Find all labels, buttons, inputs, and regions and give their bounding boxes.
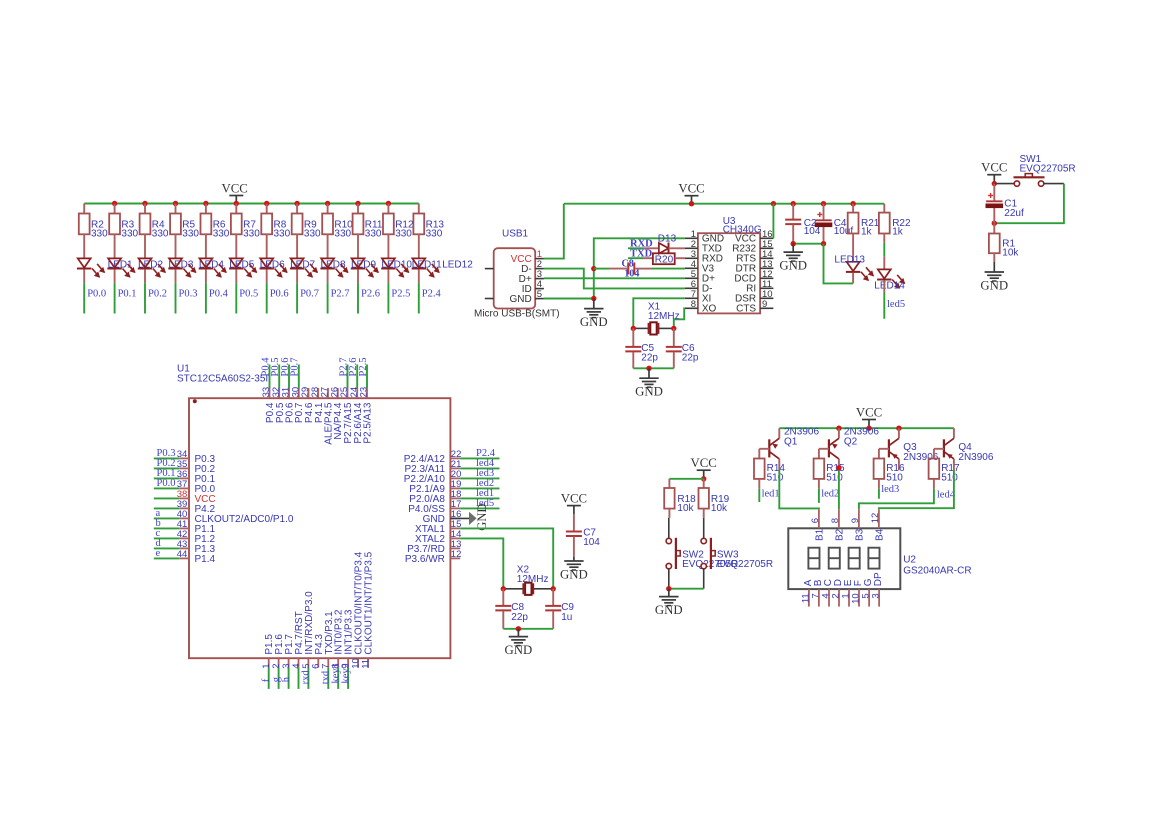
- resistor R22 1k: [883, 204, 885, 213]
- U1 pin 35 P0.2: [154, 467, 179, 469]
- svg-text:P0.7: P0.7: [300, 288, 319, 299]
- USB1 shield stubs: [485, 268, 494, 270]
- svg-text:330: 330: [152, 229, 169, 240]
- U1 pin 22 P2.4/A12: [450, 457, 460, 459]
- U3 pin 10 DSR: [760, 297, 773, 299]
- U1 pin 8 INT0/P3.2: [337, 658, 339, 667]
- svg-text:VCC: VCC: [222, 181, 248, 195]
- wire / net led2: [818, 489, 820, 503]
- junction (X1 right): [671, 326, 676, 331]
- svg-text:44: 44: [177, 549, 188, 560]
- svg-text:GND: GND: [505, 643, 533, 657]
- svg-text:led1: led1: [762, 488, 780, 499]
- LED LED3: [139, 258, 152, 267]
- svg-text:104: 104: [624, 269, 639, 280]
- USB1 pin 2 D-: [535, 268, 544, 270]
- svg-text:3: 3: [871, 593, 882, 598]
- wire USB VCC to bus: [544, 204, 564, 259]
- svg-text:U2: U2: [903, 555, 916, 566]
- svg-text:P0.2: P0.2: [148, 288, 167, 299]
- resistor R2: [83, 204, 85, 214]
- U1 pin 37 P0.0: [154, 487, 179, 489]
- junction (VCC keys): [701, 476, 706, 481]
- junction (display bus / Q3): [896, 426, 901, 431]
- U1 pin 4 P4.7/RST: [298, 658, 300, 667]
- wire / net P0.1: [114, 283, 116, 313]
- svg-text:EVQ22705R: EVQ22705R: [1020, 164, 1076, 175]
- U2 pin 9 B3: [858, 509, 860, 528]
- svg-text:P2.5: P2.5: [391, 288, 410, 299]
- wire / net led5 (LED14): [883, 293, 885, 319]
- junction (top bus / R21): [850, 201, 855, 206]
- wire / net P0.4: [205, 283, 207, 313]
- svg-text:GND: GND: [779, 259, 807, 273]
- svg-text:LED12: LED12: [442, 259, 473, 270]
- svg-text:P0.5: P0.5: [239, 288, 258, 299]
- U2 pin 2 D: [838, 589, 840, 607]
- svg-text:led3: led3: [881, 484, 899, 495]
- LED LED13: [852, 234, 854, 262]
- U1 pin 23 P2.5/A13: [366, 388, 368, 398]
- svg-text:P2.5/A13: P2.5/A13: [363, 402, 374, 444]
- wire / net P0.6: [266, 283, 268, 313]
- U1 pin 3 P1.7: [288, 658, 290, 667]
- U1 pin 30 P0.7: [298, 388, 300, 398]
- svg-text:D13: D13: [658, 234, 677, 245]
- U1 pin 7 TXD/P3.1: [327, 658, 329, 667]
- svg-text:2N3906: 2N3906: [958, 452, 993, 463]
- resistor R6: [205, 204, 207, 214]
- svg-text:GS2040AR-CR: GS2040AR-CR: [903, 566, 971, 577]
- junction (X2 right): [551, 586, 556, 591]
- U2 pin 5 G: [868, 589, 870, 607]
- junction (C4 gnd): [821, 241, 826, 246]
- U1 pin 39 P4.2: [154, 507, 179, 509]
- svg-text:Q1: Q1: [784, 436, 798, 447]
- wire / net led1: [758, 489, 760, 502]
- U3 pin 7 XI: [685, 297, 698, 299]
- U3 pin 5 D+: [685, 277, 698, 279]
- wire / net P2.5: [387, 283, 389, 313]
- svg-text:22uf: 22uf: [1004, 208, 1024, 219]
- svg-text:330: 330: [365, 229, 382, 240]
- junction (VCC/C1/SW1): [992, 181, 997, 186]
- resistor R10: [327, 204, 329, 214]
- diode D13: [644, 247, 659, 249]
- wire / net P2.7: [327, 283, 329, 313]
- wire Q1 collector to U2 B1: [779, 470, 819, 509]
- svg-text:Micro USB-B(SMT): Micro USB-B(SMT): [474, 309, 560, 320]
- U1 pin 12 P3.6/WR: [450, 557, 460, 559]
- svg-text:P0.6: P0.6: [270, 288, 289, 299]
- LED LED2: [108, 258, 121, 267]
- resistor R5: [175, 204, 177, 214]
- svg-text:VCC: VCC: [691, 456, 717, 470]
- U1 pin 17 P4.0/SS: [450, 507, 460, 509]
- ground (below C7): [573, 557, 575, 561]
- wire VCC to R18: [669, 478, 703, 480]
- ground (below SW2): [668, 589, 670, 597]
- svg-text:8: 8: [830, 518, 841, 523]
- resistor R11: [357, 204, 359, 214]
- resistor R17 510: [929, 459, 940, 479]
- U3 pin 1 GND: [685, 237, 698, 239]
- transistor Q4 2N3906: [953, 428, 955, 438]
- U1 pin 21 P2.3/A11: [450, 467, 460, 469]
- svg-text:h: h: [281, 676, 292, 682]
- svg-text:rxd: rxd: [301, 670, 312, 685]
- svg-text:22p: 22p: [511, 612, 528, 623]
- connector USB1 Micro USB-B(SMT): [494, 248, 536, 308]
- LED LED6: [230, 258, 243, 267]
- U2 pin 6 B1: [818, 509, 820, 528]
- capacitor C9 1u: [552, 589, 554, 606]
- svg-text:e: e: [156, 548, 161, 559]
- switch SW2 EVQ22705R: [668, 518, 670, 539]
- switch SW3 EVQ22705R: [703, 518, 705, 539]
- LED LED14: [883, 256, 885, 269]
- wire C4 to LED13 cathode: [824, 244, 854, 284]
- junction (X2 gnd): [516, 626, 521, 631]
- junction (X2 left): [501, 586, 506, 591]
- svg-text:B4: B4: [874, 528, 885, 541]
- svg-text:22p: 22p: [682, 353, 699, 364]
- ground (below R1): [993, 253, 995, 262]
- resistor R8: [266, 204, 268, 214]
- U1 pin 44 P1.4: [154, 557, 179, 559]
- capacitor C7 104: [573, 514, 575, 531]
- svg-text:EVQ22705R: EVQ22705R: [717, 559, 773, 570]
- wire USB D+ to CH340 D+: [544, 277, 685, 279]
- svg-text:1k: 1k: [861, 227, 873, 238]
- wire SW1 to C1 bottom: [994, 184, 1064, 224]
- wire / net P0.0: [83, 283, 85, 313]
- USB1 pin 1 VCC: [535, 258, 544, 260]
- svg-text:330: 330: [304, 229, 321, 240]
- svg-text:R20: R20: [655, 254, 674, 265]
- wire U3 XO to crystal: [674, 308, 685, 328]
- svg-text:Q2: Q2: [844, 436, 858, 447]
- capacitor C8 22p: [502, 589, 504, 606]
- junction (C1 bottom): [992, 221, 997, 226]
- svg-text:B2: B2: [834, 528, 845, 541]
- junction (VCC bus col 11): [386, 201, 391, 206]
- junction (top bus / U3 VCC): [771, 201, 776, 206]
- svg-text:9: 9: [850, 518, 861, 523]
- wire Q4 collector to U2 B4: [879, 470, 954, 509]
- svg-text:6: 6: [810, 518, 821, 523]
- svg-text:LED13: LED13: [834, 255, 865, 266]
- LED LED8: [291, 258, 304, 267]
- svg-text:GND: GND: [580, 315, 608, 329]
- junction (VCC bus col 5): [203, 201, 208, 206]
- resistor R1 10k: [993, 223, 995, 233]
- wire TXD: [628, 257, 644, 259]
- wire USB GND: [544, 298, 594, 300]
- svg-text:22p: 22p: [641, 353, 658, 364]
- svg-text:330: 330: [121, 229, 138, 240]
- wire bus to U3 pin16: [772, 204, 774, 239]
- ground flag (U1 pin16): [450, 517, 469, 519]
- ground (below USB): [593, 299, 595, 309]
- LED LED11: [382, 258, 395, 267]
- svg-text:10k: 10k: [711, 503, 728, 514]
- svg-text:GND: GND: [560, 567, 588, 581]
- ground (below C2): [792, 244, 794, 252]
- junction (GND net / USB GND): [591, 296, 596, 301]
- junction (display bus / Q2): [836, 426, 841, 431]
- junction (Q2 collector): [836, 465, 841, 470]
- svg-text:330: 330: [395, 229, 412, 240]
- svg-text:VCC: VCC: [856, 405, 882, 419]
- junction (top bus / C4): [821, 201, 826, 206]
- U1 pin 6 P4.3: [317, 658, 319, 667]
- USB1 pin 4 ID: [535, 288, 544, 290]
- svg-text:LED14: LED14: [874, 281, 905, 292]
- svg-text:1k: 1k: [892, 227, 904, 238]
- U2 pin 3 DP: [878, 589, 880, 607]
- svg-text:VCC: VCC: [981, 161, 1007, 175]
- svg-text:P0.7: P0.7: [290, 358, 301, 377]
- wire U1 XTAL1 to X2: [460, 528, 553, 588]
- wire Q2 collector to U2 B2: [838, 470, 840, 509]
- capacitor C5 22p: [632, 328, 634, 346]
- U2 pin 7 B: [818, 589, 820, 607]
- U3 pin 2 TXD: [685, 247, 698, 249]
- capacitor C6 22p: [673, 328, 675, 346]
- wire R22 to LED14: [883, 243, 885, 257]
- U3 pin 14 RTS: [760, 257, 773, 259]
- U1 pin 14 XTAL2: [450, 537, 460, 539]
- svg-text:GND: GND: [475, 504, 489, 531]
- U3 pin 11 RI: [760, 287, 773, 289]
- svg-text:510: 510: [941, 472, 958, 483]
- U2 pin 1 E: [848, 589, 850, 607]
- U1 pin 1 P1.5: [268, 658, 270, 667]
- resistor R3: [114, 204, 116, 214]
- U1 pin 38 VCC: [154, 497, 179, 499]
- svg-text:11: 11: [360, 659, 371, 669]
- junction (VCC bus col 4): [173, 201, 178, 206]
- U1 pin 13 P3.7/RD: [450, 547, 460, 549]
- U1 pin 25 P2.7/A15: [347, 388, 349, 398]
- U2 pin 8 B2: [838, 509, 840, 528]
- svg-text:P2.7: P2.7: [331, 288, 350, 299]
- wire C5-C6 bottom: [633, 367, 674, 369]
- U1 pin 11 CLKOUT1/INT/T1/P3.5: [367, 658, 369, 667]
- U3 pin 16 VCC: [760, 237, 773, 239]
- svg-text:9: 9: [762, 299, 767, 310]
- wire U1 XTAL2 to X2: [460, 538, 503, 588]
- U1 pin 9 INT1/P3.3: [347, 658, 349, 667]
- resistor R14 510: [754, 459, 765, 479]
- wire / net P2.6: [357, 283, 359, 313]
- capacitor C1 22uf: [993, 184, 995, 201]
- svg-text:CTS: CTS: [736, 304, 756, 315]
- junction (display bus / VCC stem): [866, 426, 871, 431]
- U3 pin 8 XO: [685, 307, 698, 309]
- capacitor C4 10uf: [823, 204, 825, 220]
- U1 pin 31 P0.6: [288, 388, 290, 398]
- junction (VCC bus col 9): [325, 201, 330, 206]
- U1 pin 43 P1.3: [154, 547, 179, 549]
- svg-text:P2.5: P2.5: [358, 358, 369, 377]
- wire C2-C4 bottom: [793, 243, 823, 245]
- U3 pin 9 CTS: [760, 307, 773, 309]
- svg-text:B1: B1: [814, 528, 825, 541]
- resistor R19 10k: [703, 479, 705, 488]
- svg-text:P1.4: P1.4: [195, 554, 216, 565]
- junction (VCC bus col 8): [294, 201, 299, 206]
- resistor R20: [644, 257, 653, 259]
- svg-text:330: 330: [334, 229, 351, 240]
- U1 pin 26 NA/P4.4: [337, 388, 339, 398]
- junction (crystal gnd): [646, 366, 651, 371]
- svg-text:12: 12: [870, 513, 881, 524]
- svg-text:VCC: VCC: [678, 182, 704, 196]
- U2 pin 11 A: [808, 589, 810, 607]
- U3 pin 6 D-: [685, 287, 698, 289]
- resistor R18 10k: [668, 479, 670, 488]
- wire VCC bus (top): [564, 203, 885, 205]
- U1 pin 32 P0.5: [278, 388, 280, 398]
- U1 pin 10 CLKOUT0/INT/T0/P3.4: [357, 658, 359, 667]
- svg-text:XO: XO: [702, 304, 717, 315]
- junction (VCC bus col 2): [112, 201, 117, 206]
- svg-text:330: 330: [91, 229, 108, 240]
- svg-text:DP: DP: [873, 572, 884, 586]
- svg-text:GND: GND: [509, 294, 531, 305]
- svg-text:12MHz: 12MHz: [648, 311, 680, 322]
- display U2 GS2040AR-CR: [788, 528, 900, 589]
- svg-text:B3: B3: [854, 528, 865, 541]
- resistor R12: [387, 204, 389, 214]
- svg-text:330: 330: [426, 229, 443, 240]
- svg-text:P2.6: P2.6: [361, 288, 380, 299]
- svg-text:P0.3: P0.3: [179, 288, 198, 299]
- transistor Q3 2N3906: [898, 428, 900, 438]
- ground (below C5/C6): [648, 368, 650, 378]
- svg-text:GND: GND: [655, 603, 683, 617]
- LED LED12: [412, 258, 425, 267]
- U2 pin 12 B4: [878, 509, 880, 528]
- svg-text:led2: led2: [821, 488, 839, 499]
- transistor Q2 2N3906: [838, 428, 840, 438]
- U1 pin 29 P4.6: [308, 388, 310, 398]
- U1 pin 15 XTAL1: [450, 527, 460, 529]
- svg-text:510: 510: [826, 472, 843, 483]
- junction (top bus / VCC stem): [689, 201, 694, 206]
- resistor R4: [144, 204, 146, 214]
- resistor R7: [235, 204, 237, 214]
- U1 pin 5 INT/RXD/P3.0: [307, 658, 309, 667]
- U1 pin 33 P0.4: [269, 388, 271, 398]
- svg-text:led4: led4: [937, 490, 956, 501]
- capacitor C8 104: [594, 268, 609, 270]
- svg-text:330: 330: [243, 229, 260, 240]
- wire R17 to U2 B3: [859, 489, 934, 510]
- svg-text:104: 104: [804, 226, 821, 237]
- junction (VCC bus col 6): [234, 201, 239, 206]
- LED LED7: [260, 258, 273, 267]
- svg-text:10k: 10k: [677, 503, 694, 514]
- wire USB D- to CH340 D-: [544, 269, 685, 289]
- wire / net P2.4: [418, 283, 420, 313]
- USB1 pin 3 D+: [535, 278, 544, 280]
- U1 pin 40 CLKOUT2/ADC0/P1.0: [154, 517, 179, 519]
- wire SW2-SW3 bottom: [669, 588, 704, 590]
- svg-text:10uf: 10uf: [834, 226, 854, 237]
- junction (VCC bus col 3): [142, 201, 147, 206]
- svg-text:P0.0: P0.0: [87, 288, 106, 299]
- svg-text:1u: 1u: [561, 612, 572, 623]
- svg-text:P3.6/WR: P3.6/WR: [405, 554, 445, 565]
- svg-text:GND: GND: [980, 278, 1008, 292]
- U3 pin 15 R232: [760, 247, 773, 249]
- svg-text:P0.4: P0.4: [209, 288, 229, 299]
- wire U3 XI to crystal: [633, 298, 685, 328]
- USB1 pin 5 GND: [535, 298, 544, 300]
- wire C8-C9 bottom: [503, 628, 553, 630]
- resistor R9: [296, 204, 298, 214]
- svg-text:330: 330: [182, 229, 199, 240]
- U1 pin 34 P0.3: [154, 457, 179, 459]
- U2 pin 4 C: [828, 589, 830, 607]
- U1 pin 27 ALE/P4.5: [327, 388, 329, 398]
- wire RXD: [628, 247, 644, 249]
- svg-text:8: 8: [691, 299, 696, 310]
- U1 pin 24 P2.6/A14: [356, 388, 358, 398]
- junction (X1 left): [631, 326, 636, 331]
- wire / net P0.3: [175, 283, 177, 313]
- svg-text:510: 510: [767, 472, 784, 483]
- svg-text:10k: 10k: [1002, 248, 1019, 259]
- wire VCC bus (LED array): [84, 203, 419, 205]
- U1 pin 36 P0.1: [154, 477, 179, 479]
- LED LED4: [169, 258, 182, 267]
- LED LED10: [352, 258, 365, 267]
- junction (GND net / C8): [591, 266, 596, 271]
- junction (C2 gnd): [791, 241, 796, 246]
- svg-text:led5: led5: [887, 299, 905, 310]
- resistor R15 510: [814, 459, 825, 479]
- svg-text:12: 12: [451, 549, 462, 560]
- LED LED1: [78, 258, 91, 267]
- U1 pin 42 P1.2: [154, 537, 179, 539]
- svg-text:P0.0: P0.0: [157, 478, 176, 489]
- svg-text:CLKOUT1/INT/T1/P3.5: CLKOUT1/INT/T1/P3.5: [364, 551, 375, 654]
- junction (top bus / C2): [791, 201, 796, 206]
- wire / net P0.2: [144, 283, 146, 313]
- svg-text:GND: GND: [635, 385, 663, 399]
- svg-text:330: 330: [274, 229, 291, 240]
- U1 pin 28 P4.1: [317, 388, 319, 398]
- U1 pin 2 P1.6: [278, 658, 280, 667]
- svg-text:104: 104: [583, 537, 600, 548]
- wire / net P0.7: [296, 283, 298, 313]
- transistor Q1 2N3906: [778, 428, 780, 438]
- svg-text:P2.4: P2.4: [422, 288, 442, 299]
- U3 pin 12 DCD: [760, 277, 773, 279]
- svg-text:510: 510: [886, 472, 903, 483]
- junction (VCC bus col 7): [264, 201, 269, 206]
- U2 pin 10 F: [858, 589, 860, 607]
- svg-text:5: 5: [537, 289, 542, 300]
- switch SW1 EVQ22705R: [994, 183, 1014, 185]
- svg-text:STC12C5A60S2-35I: STC12C5A60S2-35I: [177, 374, 268, 385]
- U3 pin 4 V3: [685, 267, 698, 269]
- U3 pin 3 RXD: [685, 257, 698, 259]
